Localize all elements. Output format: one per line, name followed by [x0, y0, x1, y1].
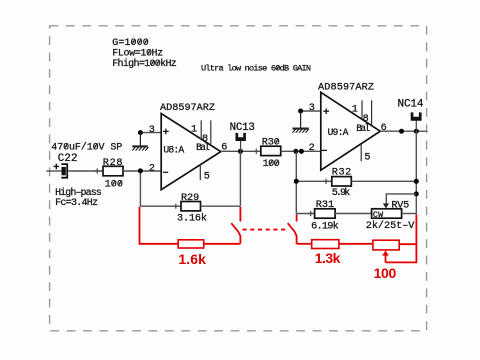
- wire R31 right to RV5: [335, 213, 372, 215]
- zero slashes: [65, 39, 279, 186]
- svg-text:6: 6: [381, 123, 387, 134]
- red potentiometer 100: [373, 240, 399, 250]
- wire R29 left: [140, 205, 181, 207]
- svg-text:3.16k: 3.16k: [177, 213, 207, 225]
- wire RV5 right: [402, 213, 417, 215]
- svg-text:G=1000: G=1000: [112, 38, 149, 49]
- svg-text:C22: C22: [58, 153, 78, 165]
- switch gang dashed link: [243, 229, 289, 231]
- svg-text:5: 5: [364, 152, 370, 163]
- wire rail right: [415, 131, 417, 214]
- U8 bal pin 1 line: [200, 120, 202, 139]
- svg-text:1.6k: 1.6k: [178, 251, 206, 267]
- capacitor C22: [62, 167, 66, 175]
- op-amp U8 triangle: [161, 114, 221, 190]
- resistor R32: [332, 177, 352, 186]
- red resistor 1.6k: [178, 240, 204, 248]
- svg-text:U9:A: U9:A: [328, 127, 349, 138]
- svg-text:NC13: NC13: [230, 122, 255, 134]
- wire node down from pin2: [139, 171, 141, 206]
- wire R32 left: [296, 180, 332, 182]
- svg-text:NC14: NC14: [398, 99, 424, 111]
- frame border dashed: [50, 26, 427, 331]
- switch S2 stub: [296, 214, 298, 221]
- wire R28 to U8 pin2: [123, 170, 161, 172]
- junction R32 right: [414, 179, 419, 184]
- NC14 stem: [415, 121, 417, 132]
- wire R29 right: [201, 205, 241, 207]
- U9 bal pin 8 line: [371, 100, 373, 125]
- svg-text:R30: R30: [262, 138, 280, 149]
- svg-text:RV5: RV5: [391, 201, 409, 212]
- red wire 1.6k to switch: [204, 243, 241, 245]
- wire down from node to R31: [295, 151, 297, 213]
- pin cross R31 left: [308, 211, 313, 216]
- U9 bal pin 1 line: [361, 100, 363, 119]
- ground U9 pin3: [292, 111, 308, 133]
- svg-text:2: 2: [309, 143, 315, 154]
- potentiometer RV5: [372, 209, 402, 218]
- junction U9 out b: [414, 129, 419, 134]
- svg-text:2k/25t–V: 2k/25t–V: [366, 220, 415, 232]
- resistor R28: [103, 166, 123, 176]
- wire down from U8 out node: [239, 151, 241, 206]
- svg-text:CW: CW: [373, 211, 383, 220]
- svg-text:U8:A: U8:A: [163, 145, 184, 156]
- svg-text:100: 100: [263, 159, 280, 170]
- U8 minus marker: [163, 171, 168, 173]
- svg-text:3: 3: [149, 125, 155, 136]
- svg-text:R29: R29: [181, 193, 199, 204]
- svg-text:3: 3: [309, 103, 315, 114]
- resistor R30: [261, 146, 281, 155]
- pin cross R30 left: [254, 149, 259, 154]
- wire input net: [46, 170, 62, 172]
- junction node b: [299, 149, 304, 154]
- op-amp U9 triangle: [321, 92, 380, 170]
- svg-text:R32: R32: [332, 167, 352, 178]
- wire R32 right: [351, 180, 416, 182]
- U9 minus marker: [322, 149, 327, 151]
- svg-text:Ultra low noise 60dB GAIN: Ultra low noise 60dB GAIN: [201, 64, 311, 74]
- U9 plus marker: [323, 108, 329, 114]
- capacitor C22 plus sign: [54, 164, 60, 170]
- wire U9 out to border: [380, 130, 427, 132]
- junction RV5 wiper: [414, 191, 419, 196]
- svg-text:FLow=10Hz: FLow=10Hz: [112, 49, 163, 60]
- red wire left vertical: [140, 207, 179, 244]
- svg-text:R31: R31: [316, 200, 334, 211]
- svg-text:R28: R28: [103, 158, 123, 169]
- red resistor 1.3k: [312, 240, 339, 249]
- switch S1 stub: [239, 207, 241, 222]
- switch S2 lever: [288, 223, 297, 244]
- red wire pot right to rail: [399, 243, 416, 245]
- wire R31 left: [296, 213, 314, 215]
- svg-text:Fhigh=100kHz: Fhigh=100kHz: [112, 58, 177, 70]
- RV5 wiper arrowhead: [383, 203, 389, 208]
- svg-text:Fc=3.4Hz: Fc=3.4Hz: [55, 198, 98, 209]
- red wiper arrowhead: [382, 250, 389, 255]
- svg-text:5.9k: 5.9k: [332, 187, 351, 199]
- svg-text:100: 100: [374, 265, 397, 281]
- resistor R29: [181, 202, 201, 211]
- svg-text:AD8597ARZ: AD8597ARZ: [318, 83, 374, 94]
- wire U8 pin3: [140, 132, 161, 134]
- ground U8 pin3: [132, 133, 148, 151]
- red wire 1.3k to pot: [339, 243, 373, 245]
- U8 bal pin 8 line: [210, 120, 212, 145]
- wire R30 to U9 pin2: [281, 150, 321, 152]
- junction U8 out: [238, 149, 243, 154]
- svg-text:100: 100: [105, 180, 123, 191]
- NC13 stem: [240, 141, 242, 152]
- U9 pin 5 line: [360, 144, 362, 161]
- svg-text:8: 8: [363, 114, 369, 125]
- svg-text:8: 8: [202, 134, 208, 145]
- red rail: [386, 214, 417, 262]
- junction pin2 U8: [138, 168, 143, 173]
- resistor R31: [315, 209, 336, 218]
- wire C22 to R28: [68, 170, 103, 172]
- svg-text:2: 2: [149, 164, 155, 175]
- NC13 symbol: [236, 133, 246, 141]
- pin cross R32 left: [323, 179, 328, 184]
- junction pin3 U8: [138, 130, 143, 135]
- svg-text:470uF/10V SP: 470uF/10V SP: [51, 141, 122, 153]
- wire U9 pin3: [301, 110, 321, 112]
- junction node a: [293, 149, 298, 154]
- switch S1 lever: [231, 223, 240, 244]
- svg-text:1.3k: 1.3k: [315, 250, 341, 266]
- U8 plus marker: [163, 129, 169, 135]
- wire RV5 wiper: [386, 194, 416, 204]
- pin cross R28 left: [95, 168, 100, 173]
- U8 pin 5 line: [199, 165, 201, 181]
- junction U9 out a: [399, 129, 404, 134]
- pin cross R29 left: [173, 204, 178, 209]
- junction pin3 U9: [298, 109, 303, 114]
- svg-text:5: 5: [204, 171, 210, 182]
- svg-text:AD8597ARZ: AD8597ARZ: [160, 103, 215, 114]
- svg-text:6.19k: 6.19k: [311, 220, 339, 232]
- junction R32 left: [294, 179, 299, 184]
- NC14 symbol: [411, 112, 422, 120]
- red wire switch to 1.3k: [297, 243, 312, 245]
- svg-text:1: 1: [191, 124, 197, 135]
- wire U8 out to R30: [221, 150, 261, 152]
- svg-text:1: 1: [352, 105, 358, 116]
- red wiper stem: [385, 255, 387, 263]
